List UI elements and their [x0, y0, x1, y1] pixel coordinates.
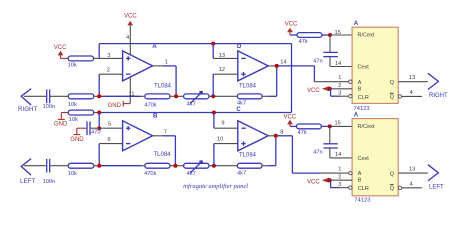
svg-text:Cext: Cext	[358, 156, 370, 162]
svg-text:8: 8	[280, 130, 283, 136]
svg-text:10k: 10k	[68, 62, 77, 68]
wire R11 to junction	[322, 34, 330, 36]
svg-text:Q: Q	[390, 80, 395, 86]
resistor R11 47k	[297, 33, 322, 45]
svg-text:3: 3	[338, 182, 341, 188]
wire C2 to pin5	[90, 127, 106, 129]
svg-text:14: 14	[335, 61, 341, 67]
svg-text:10k: 10k	[69, 117, 78, 123]
svg-text:2: 2	[107, 68, 110, 74]
svg-text:15: 15	[335, 120, 341, 126]
pin 13 op-amp U1D	[213, 53, 238, 59]
op-amp U1C TL084	[236, 107, 268, 158]
resistor R10 4k7 left	[237, 163, 262, 176]
resistor R3 10k input right	[68, 94, 94, 108]
svg-text:A: A	[358, 80, 362, 86]
pin 4 U2 Qbar output	[402, 90, 422, 96]
power VCC5 above R12	[284, 114, 297, 126]
svg-text:2: 2	[338, 175, 341, 181]
wire C3 to R7	[50, 165, 69, 167]
port LEFT input	[20, 159, 35, 185]
resistor R7 10k input left	[68, 163, 94, 177]
svg-text:B: B	[153, 113, 158, 119]
pin 1 U2 A input	[314, 75, 348, 82]
wire C output to U3 pin A	[277, 136, 320, 173]
svg-text:15: 15	[335, 30, 341, 36]
port RIGHT input	[18, 89, 37, 113]
junction output B on chain2	[173, 164, 177, 168]
svg-text:VCC: VCC	[124, 14, 137, 20]
svg-text:3: 3	[107, 53, 110, 59]
wire input left to C3	[24, 165, 47, 167]
svg-text:470k: 470k	[144, 102, 156, 108]
svg-text:VCC: VCC	[307, 88, 320, 94]
wire R10 to C output riser	[262, 136, 276, 166]
wire R8 to trimmer2	[170, 165, 184, 167]
resistor R6 4k7 right	[237, 94, 262, 107]
svg-text:13: 13	[219, 53, 225, 59]
svg-text:Q: Q	[390, 186, 395, 192]
junction bias2 at cap tap	[97, 111, 101, 115]
svg-text:TL084: TL084	[154, 83, 172, 89]
power VCC2 (op-amp supply)	[124, 14, 137, 26]
wire VCC5 to R12	[290, 125, 296, 127]
svg-text:74123: 74123	[354, 198, 370, 204]
pin 13 U2 Q output	[398, 75, 428, 82]
resistor R4 470k feedback right	[144, 94, 170, 108]
wire trimmer2 to R10	[209, 165, 237, 167]
svg-text:RIGHT: RIGHT	[429, 93, 448, 99]
svg-text:A: A	[152, 44, 157, 50]
svg-text:RIGHT: RIGHT	[18, 106, 37, 113]
svg-text:14: 14	[335, 152, 341, 158]
wire riser bias to pin13	[212, 44, 214, 59]
pin 3 U3 CLR input	[331, 180, 349, 188]
svg-text:10k: 10k	[68, 102, 77, 108]
wire C1 to R3	[50, 95, 69, 97]
capacitor C5 47n	[313, 144, 338, 156]
wire output B to chain2	[163, 136, 175, 166]
pin 14 output op-amp U1D	[268, 59, 286, 66]
IC U2 74123 (top)	[349, 21, 402, 112]
wire pin6 riser to input node left	[98, 144, 100, 166]
pin 12 op-amp U1D	[213, 67, 238, 74]
junction C output	[274, 134, 278, 138]
svg-text:13: 13	[409, 166, 415, 172]
svg-text:47n: 47n	[313, 58, 323, 64]
ground GND2 at R2	[54, 113, 68, 128]
wire D output to U2 pin A riser	[278, 66, 314, 82]
resistor R1 10k	[68, 56, 94, 68]
pin 2 op-amp U1A	[99, 68, 122, 75]
svg-text:CLR: CLR	[358, 95, 369, 101]
svg-text:Q: Q	[390, 95, 395, 101]
svg-text:GND: GND	[70, 137, 84, 143]
svg-text:1: 1	[338, 75, 341, 81]
svg-text:4k7: 4k7	[187, 101, 196, 107]
op-amp U1B TL084	[123, 113, 172, 158]
pin 1 output op-amp U1A	[153, 60, 168, 66]
svg-text:CLR: CLR	[358, 186, 369, 192]
pin 15 U3	[330, 120, 352, 126]
junction input node left	[97, 164, 101, 168]
svg-text:A: A	[354, 112, 359, 118]
svg-text:47k: 47k	[299, 39, 308, 45]
wire net bias right riser down	[291, 44, 293, 113]
junction input node right	[97, 94, 101, 98]
svg-text:14: 14	[280, 59, 286, 65]
wire riser pin12	[212, 74, 214, 96]
svg-text:47n: 47n	[313, 150, 323, 156]
pin 10 op-amp U1C	[214, 136, 238, 143]
svg-text:74123: 74123	[354, 106, 370, 112]
svg-text:TL084: TL084	[154, 152, 172, 158]
ground GND1 at pin 11	[108, 101, 131, 109]
svg-text:VCC: VCC	[284, 114, 297, 120]
junction on bias wire at pin13 riser	[211, 42, 215, 46]
wire riser bias2 to pin9	[213, 113, 215, 129]
svg-text:VCC: VCC	[54, 45, 67, 51]
svg-text:B: B	[358, 178, 362, 184]
wire R6 to D output riser	[262, 66, 277, 96]
capacitor C4 47n	[313, 52, 338, 64]
svg-text:R/Cext: R/Cext	[358, 124, 375, 130]
svg-text:100n: 100n	[43, 179, 56, 185]
svg-text:TL084: TL084	[239, 83, 257, 89]
svg-text:2: 2	[338, 83, 341, 89]
svg-text:4: 4	[410, 90, 413, 96]
wire VCC3 to R11	[290, 34, 297, 36]
pin 2 U2 B input	[330, 83, 352, 89]
pin 1 U3 A input	[320, 167, 349, 173]
svg-text:4: 4	[410, 182, 413, 188]
svg-text:VCC: VCC	[307, 179, 320, 185]
svg-text:4k7: 4k7	[187, 171, 196, 177]
capacitor C1 100n	[43, 90, 56, 111]
port LEFT output	[428, 165, 444, 191]
junction pin5 node	[97, 126, 101, 130]
svg-text:4k7: 4k7	[237, 170, 246, 176]
svg-text:5: 5	[108, 121, 111, 127]
op-amp U1A TL084	[123, 44, 172, 89]
power VCC3 above R11	[285, 22, 298, 36]
junction bias2 at pin9 riser	[212, 111, 216, 115]
port RIGHT output	[428, 73, 448, 99]
svg-text:TL084: TL084	[239, 152, 257, 158]
svg-text:LEFT: LEFT	[20, 178, 35, 185]
pin 15 U2	[330, 30, 352, 36]
pin 2 U3 B input	[330, 175, 352, 181]
wire trimmer to R6	[209, 95, 237, 97]
svg-text:13: 13	[409, 75, 415, 81]
svg-text:D: D	[237, 44, 242, 50]
pin 11 op-amp U1A supply	[129, 77, 135, 104]
junction pin12 tap	[211, 94, 215, 98]
wire R7 to node to R8	[94, 165, 145, 167]
wire R4 to trimmer	[170, 95, 184, 97]
svg-text:Cext: Cext	[358, 65, 370, 71]
svg-text:Q: Q	[390, 171, 395, 177]
wire VCC1 to R1	[61, 57, 69, 59]
pin 8 output op-amp U1C	[268, 130, 283, 136]
svg-text:7: 7	[164, 130, 167, 136]
svg-text:3: 3	[338, 90, 341, 96]
svg-text:6: 6	[108, 137, 111, 143]
pin 3 op-amp U1A	[106, 53, 123, 59]
svg-text:100n: 100n	[43, 104, 56, 110]
wire junction to C5	[329, 126, 331, 143]
svg-text:470k: 470k	[144, 171, 156, 177]
pin 9 op-amp U1C	[214, 121, 238, 129]
pin 13 U3 Q output	[398, 166, 428, 173]
pin 6 op-amp U1B	[99, 137, 122, 144]
resistor R12 47k lower	[296, 124, 321, 136]
wire R12 to junction	[321, 125, 329, 127]
junction output A on chain	[174, 94, 178, 98]
power VCC6 at U3 B/CLR	[307, 178, 332, 186]
trimmer R9 4k7 left	[184, 160, 209, 177]
trimmer R5 4k7 right	[184, 91, 209, 108]
op-amp U1D TL084	[237, 44, 268, 90]
svg-text:A: A	[354, 21, 359, 27]
junction R12/C5/pin15	[328, 124, 332, 128]
svg-text:LEFT: LEFT	[429, 184, 444, 190]
pin 5 op-amp U1B	[106, 121, 123, 128]
ground GND3 at C2	[70, 128, 84, 143]
capacitor C3 100n	[43, 159, 56, 185]
svg-text:R/Cext: R/Cext	[358, 33, 375, 39]
svg-text:470: 470	[91, 129, 101, 135]
svg-text:1: 1	[338, 167, 341, 173]
pin 4 U3 Qbar output	[402, 182, 422, 188]
IC U3 74123 (bottom)	[349, 112, 402, 203]
svg-text:A: A	[358, 171, 362, 177]
wire R1 to node	[94, 57, 106, 59]
svg-text:9: 9	[221, 121, 224, 127]
wire bias riser up	[98, 44, 100, 59]
resistor R8 470k feedback left	[144, 163, 170, 177]
wire junction to C4	[329, 35, 331, 52]
wire R3 to node to R4	[94, 95, 145, 97]
capacitor C2 470	[87, 121, 101, 135]
svg-text:47k: 47k	[298, 130, 307, 136]
svg-text:10k: 10k	[68, 171, 77, 177]
svg-text:GND: GND	[54, 122, 68, 128]
svg-text:4k7: 4k7	[237, 101, 246, 107]
wire riser bias2 to pin5 node	[98, 113, 100, 129]
wire riser pin10	[213, 144, 215, 166]
wire net bias top horizontal	[99, 43, 291, 45]
wire pin2 riser to input node	[98, 74, 100, 96]
svg-text:VCC: VCC	[285, 22, 298, 28]
svg-text:1: 1	[165, 60, 168, 66]
resistor R2 10k bias lower	[68, 110, 94, 123]
svg-text:infragate amplifier panel: infragate amplifier panel	[183, 183, 248, 190]
power VCC4 at U2 B/CLR	[307, 86, 332, 94]
wire net bias2 horizontal	[61, 112, 291, 114]
svg-text:4: 4	[126, 35, 129, 41]
wire output A to chain	[163, 66, 176, 96]
pin 14 U2 Cext	[330, 57, 352, 67]
svg-text:12: 12	[219, 67, 225, 73]
caption infragate amplifier panel	[183, 183, 248, 190]
wire C2 to GND3	[77, 127, 87, 129]
svg-text:GND: GND	[108, 103, 122, 109]
pin 14 U3 Cext	[330, 148, 352, 158]
power VCC1 (top-left bias)	[54, 45, 67, 58]
wire input right to C1	[24, 95, 47, 97]
junction D output	[275, 64, 279, 68]
junction pin10 tap	[212, 164, 216, 168]
svg-text:B: B	[358, 86, 362, 92]
pin 7 output op-amp U1B	[153, 130, 167, 136]
pin 3 U2 CLR input	[331, 89, 349, 97]
junction R11/C4/pin15	[328, 33, 332, 37]
svg-text:10: 10	[217, 136, 223, 142]
pin 4 op-amp U1A supply	[126, 25, 130, 55]
svg-text:C: C	[236, 107, 241, 113]
